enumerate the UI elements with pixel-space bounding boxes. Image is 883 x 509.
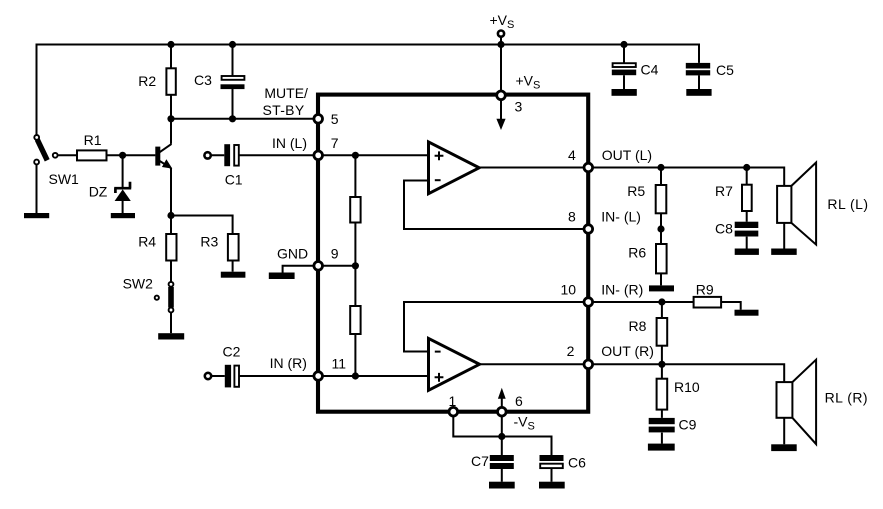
svg-text:7: 7 xyxy=(331,135,339,151)
svg-text:C1: C1 xyxy=(225,171,243,187)
svg-text:8: 8 xyxy=(568,209,576,225)
svg-text:2: 2 xyxy=(567,343,575,359)
svg-text:C4: C4 xyxy=(641,62,659,78)
svg-text:9: 9 xyxy=(331,246,339,262)
svg-text:R9: R9 xyxy=(696,282,714,298)
svg-text:R4: R4 xyxy=(138,234,156,250)
svg-text:4: 4 xyxy=(568,147,576,163)
svg-text:RL (R): RL (R) xyxy=(825,390,868,406)
svg-text:IN (L): IN (L) xyxy=(272,135,307,151)
svg-text:DZ: DZ xyxy=(89,184,108,200)
svg-text:C6: C6 xyxy=(568,455,586,471)
svg-text:R2: R2 xyxy=(138,73,156,89)
svg-text:OUT (R): OUT (R) xyxy=(601,343,654,359)
svg-text:11: 11 xyxy=(332,355,347,371)
svg-text:10: 10 xyxy=(561,282,577,298)
svg-text:OUT (L): OUT (L) xyxy=(602,147,652,163)
svg-text:ST-BY: ST-BY xyxy=(263,102,305,118)
svg-text:C2: C2 xyxy=(223,343,241,359)
svg-text:R1: R1 xyxy=(84,132,102,148)
svg-text:R7: R7 xyxy=(715,183,733,199)
svg-text:SW1: SW1 xyxy=(49,171,80,187)
svg-text:R6: R6 xyxy=(628,245,646,261)
svg-text:GND: GND xyxy=(277,246,308,262)
svg-text:6: 6 xyxy=(515,393,523,409)
svg-text:MUTE/: MUTE/ xyxy=(264,85,308,101)
svg-text:R5: R5 xyxy=(627,183,645,199)
svg-text:IN- (R): IN- (R) xyxy=(601,282,643,298)
svg-text:C9: C9 xyxy=(679,416,697,432)
svg-text:SW2: SW2 xyxy=(123,275,154,291)
svg-text:3: 3 xyxy=(515,99,523,115)
svg-text:C8: C8 xyxy=(715,221,733,237)
svg-text:R3: R3 xyxy=(200,234,218,250)
svg-text:R10: R10 xyxy=(674,379,700,395)
svg-text:1: 1 xyxy=(449,393,457,409)
svg-text:IN- (L): IN- (L) xyxy=(601,209,641,225)
svg-text:C7: C7 xyxy=(471,453,489,469)
svg-text:R8: R8 xyxy=(629,318,647,334)
svg-text:IN (R): IN (R) xyxy=(270,355,307,371)
svg-text:C5: C5 xyxy=(716,62,734,78)
svg-text:RL (L): RL (L) xyxy=(827,196,868,212)
svg-text:5: 5 xyxy=(331,111,339,127)
svg-text:C3: C3 xyxy=(194,72,212,88)
